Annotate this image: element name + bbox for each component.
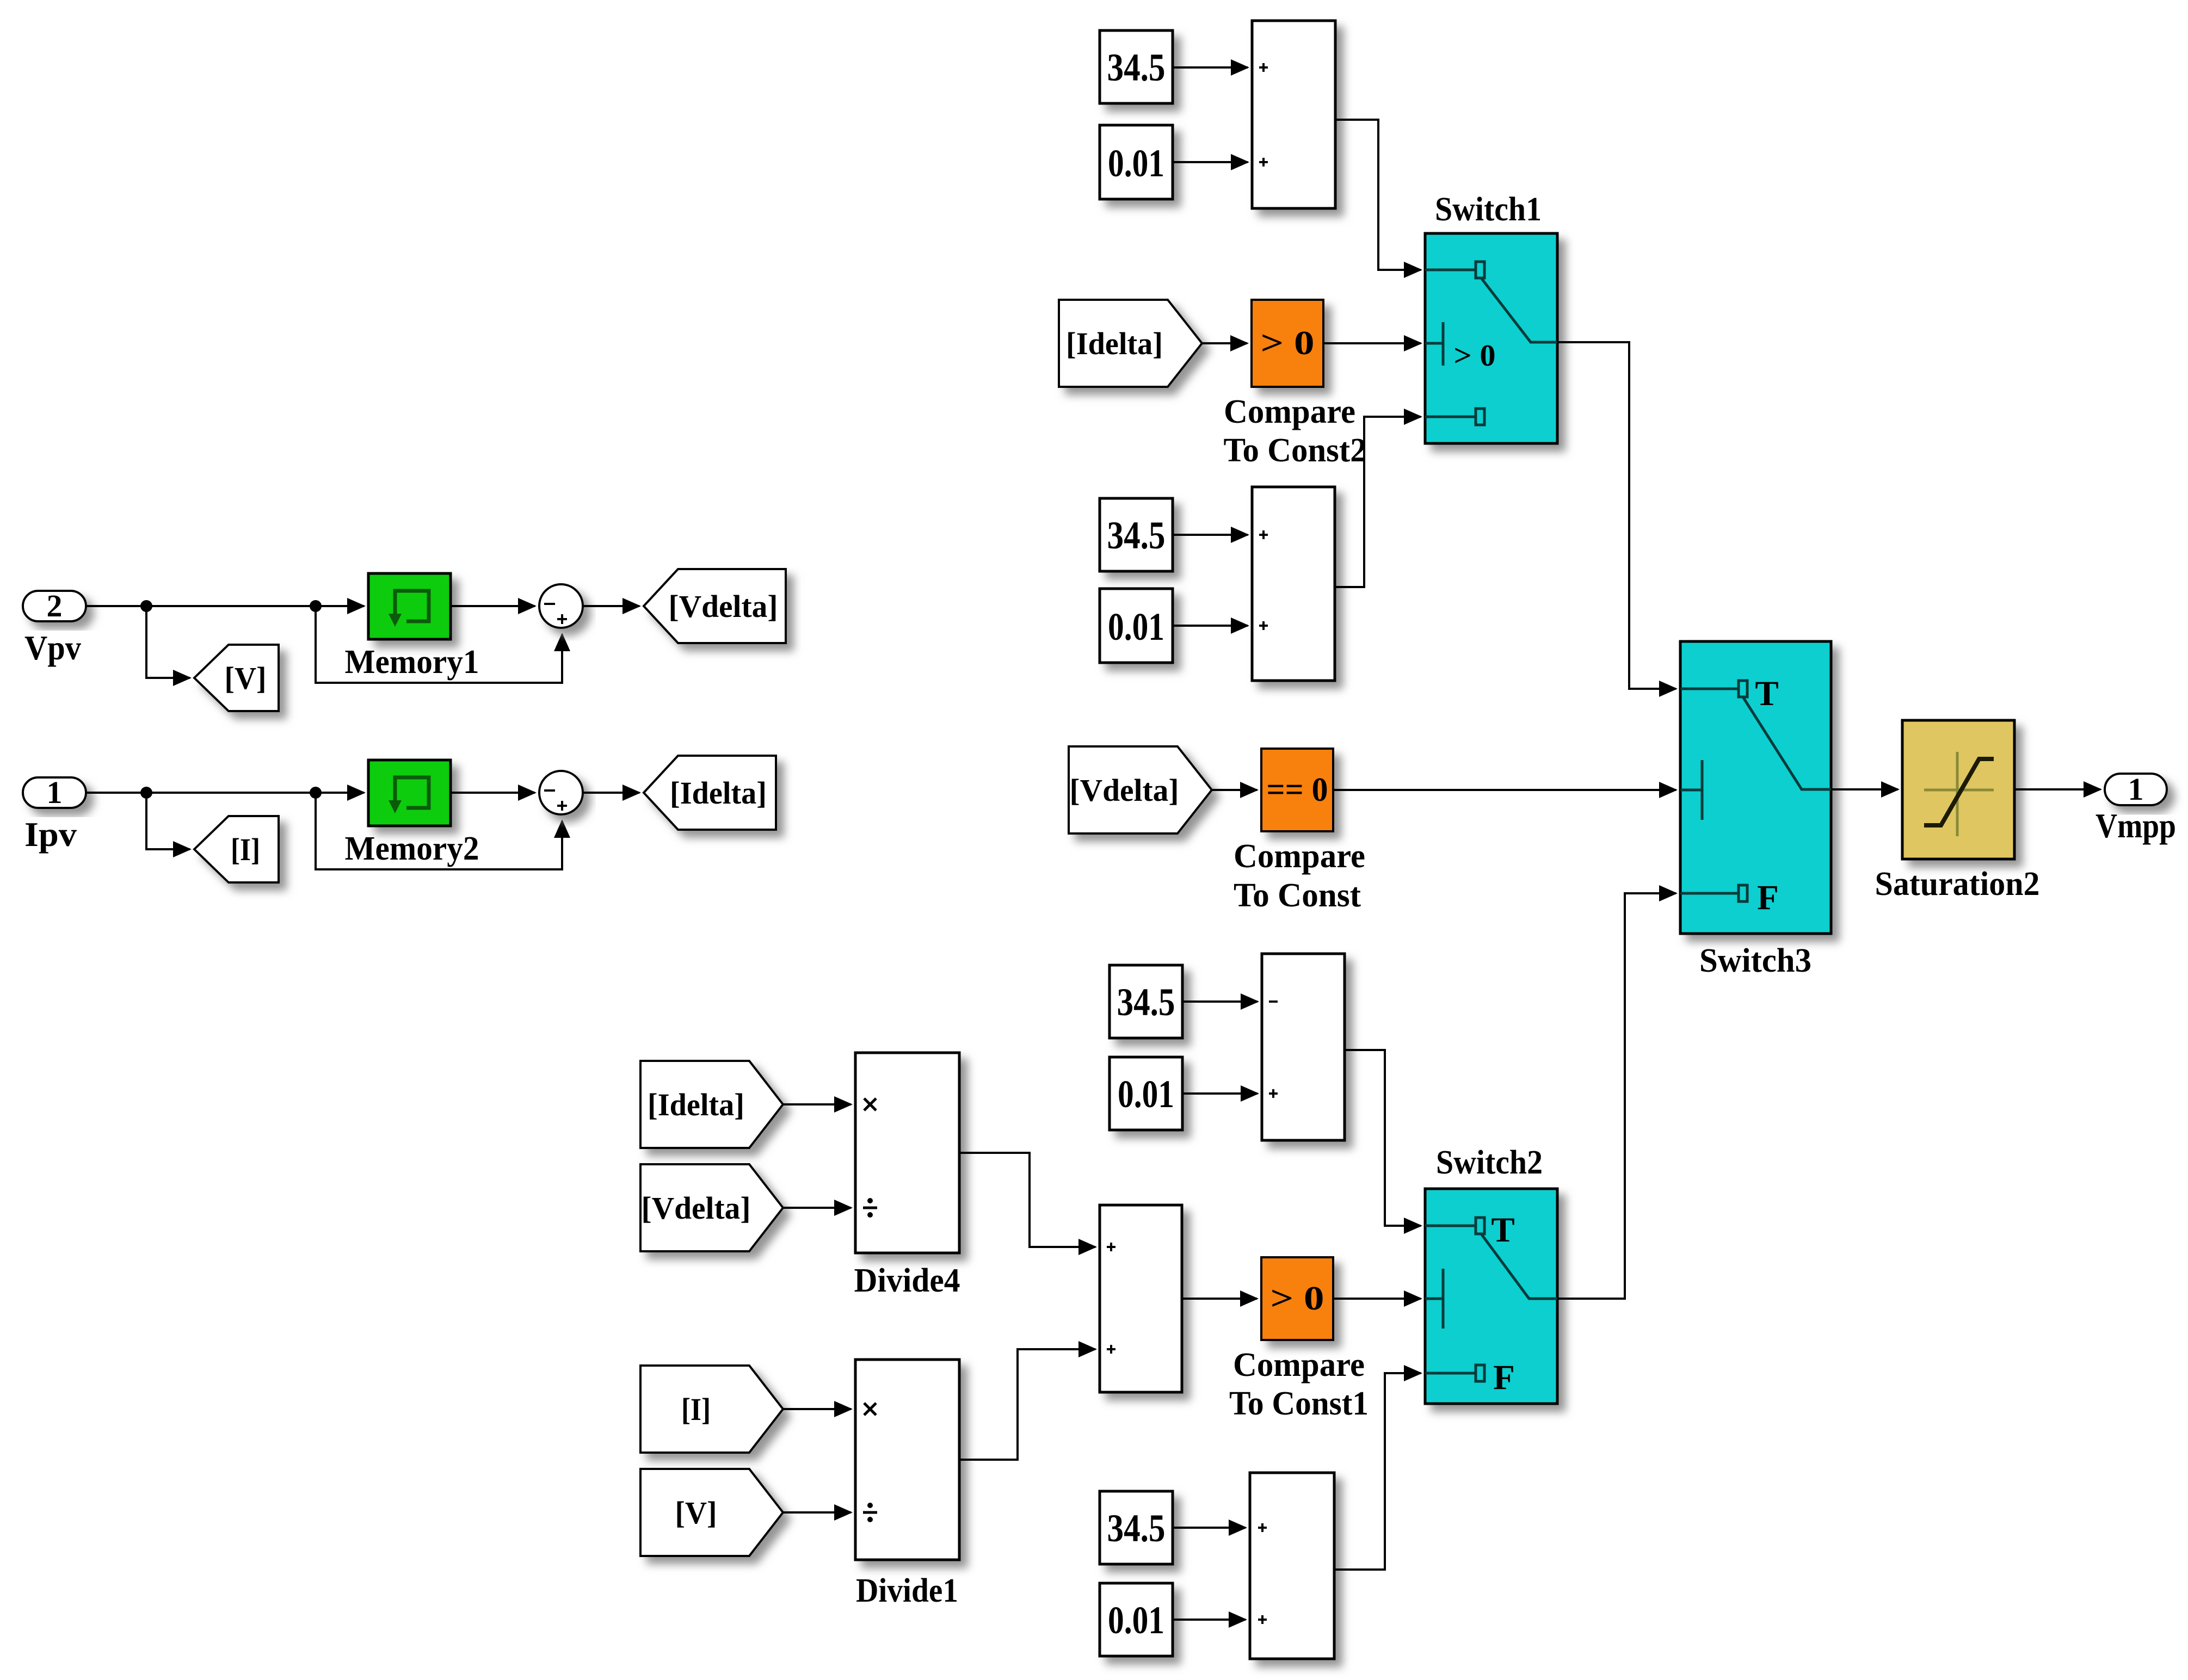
svg-text:> 0: > 0	[1454, 339, 1496, 373]
wire [I] to Divide1 input1	[783, 1408, 851, 1410]
wire Switch2 output to Switch3 input3	[1557, 893, 1676, 1299]
wire branch Ipv to goto [I]	[146, 793, 190, 849]
inport 1 (Ipv)	[23, 775, 86, 854]
svg-text:1: 1	[47, 775, 63, 810]
wire sum circle 2 to goto [Idelta]	[583, 792, 639, 794]
goto tag [Vdelta]	[644, 569, 786, 643]
wire Add3 to Compare To Const1	[1182, 1298, 1257, 1300]
from tag [I]	[640, 1366, 783, 1453]
wire 34.5 to Add4 top	[1173, 1527, 1246, 1529]
svg-text:Switch3: Switch3	[1699, 942, 1811, 979]
constant Constant8: 34.5	[1100, 1491, 1173, 1564]
compare block Compare To Const2 (> 0)	[1224, 300, 1367, 469]
constant Constant7: 0.01	[1110, 1057, 1182, 1130]
svg-text:Switch1: Switch1	[1435, 191, 1542, 228]
svg-text:Compare: Compare	[1233, 1347, 1365, 1383]
svg-text:34.5: 34.5	[1107, 46, 1166, 89]
svg-text:[I]: [I]	[231, 832, 260, 867]
svg-text:To Const: To Const	[1234, 877, 1361, 914]
constant Constant2: 34.5	[1100, 30, 1173, 103]
constant Constant6: 34.5	[1110, 965, 1182, 1038]
svg-text:[Vdelta]: [Vdelta]	[669, 589, 778, 624]
from tag [V]	[640, 1469, 783, 1556]
svg-text:Compare: Compare	[1224, 393, 1355, 430]
wire 0.01 to Add1 bottom	[1173, 625, 1248, 627]
from tag [Idelta] (top)	[1059, 300, 1202, 387]
junction dot A2	[310, 600, 322, 612]
svg-text:Vpv: Vpv	[24, 628, 81, 667]
svg-text:2: 2	[47, 588, 63, 623]
wire Add to Switch1 input1	[1335, 120, 1421, 270]
wire Add4 to Switch2 input3	[1334, 1373, 1421, 1570]
sum Add (top)	[1252, 21, 1335, 208]
wire Memory2 to sum circle 2	[451, 792, 535, 794]
svg-text:F: F	[1493, 1358, 1515, 1397]
svg-text:[Vdelta]: [Vdelta]	[1070, 773, 1179, 808]
svg-text:0.01: 0.01	[1118, 1072, 1174, 1116]
constant Constant5: 0.01	[1100, 589, 1173, 663]
wire 34.5 to Add1 top	[1173, 534, 1248, 536]
wire Add2 to Switch2 input1	[1345, 1050, 1421, 1226]
svg-text:Memory2: Memory2	[345, 830, 479, 867]
goto tag [I]	[194, 816, 279, 882]
goto tag [Idelta]	[644, 756, 776, 830]
sum Add2 (subtract)	[1262, 954, 1345, 1140]
wire feedback row1 to sum circle 1 bottom	[316, 606, 562, 683]
svg-text:F: F	[1757, 878, 1779, 917]
wire Compare To Const2 to Switch1 input2	[1323, 342, 1421, 344]
wire [V] to Divide1 input2	[783, 1511, 851, 1514]
svg-text:Compare: Compare	[1234, 838, 1365, 875]
junction dot B2	[310, 787, 322, 799]
svg-text:To Const1: To Const1	[1229, 1385, 1369, 1422]
svg-text:[V]: [V]	[675, 1495, 717, 1530]
saturation Saturation2	[1875, 720, 2040, 903]
svg-text:34.5: 34.5	[1107, 1506, 1166, 1550]
wire [Vdelta] to Divide4 input2	[783, 1207, 851, 1209]
svg-text:T: T	[1755, 674, 1778, 713]
svg-text:[I]: [I]	[681, 1392, 711, 1427]
junction dot B1	[140, 787, 152, 799]
svg-text:To Const2: To Const2	[1224, 432, 1367, 469]
svg-text:Vmpp: Vmpp	[2095, 806, 2176, 845]
svg-text:Ipv: Ipv	[24, 815, 77, 854]
divide Divide4	[854, 1053, 960, 1299]
svg-text:T: T	[1491, 1210, 1514, 1250]
wire [Vdelta] to Compare To Const	[1212, 789, 1257, 791]
wire Compare To Const to Switch3 input2	[1333, 789, 1676, 791]
divide Divide1	[855, 1360, 959, 1609]
wire Add1 to Switch1 input3	[1335, 417, 1421, 587]
wire Divide4 to Add3 input1	[959, 1153, 1095, 1247]
inport 2 (Vpv)	[23, 588, 86, 667]
switch Switch1	[1425, 191, 1557, 443]
svg-text:> 0: > 0	[1261, 325, 1315, 362]
svg-text:Memory1: Memory1	[345, 644, 479, 681]
constant Constant4: 34.5	[1100, 498, 1173, 571]
svg-text:[Idelta]: [Idelta]	[670, 775, 767, 811]
svg-text:[Vdelta]: [Vdelta]	[642, 1190, 751, 1226]
sum Add1 (second)	[1252, 487, 1335, 681]
svg-text:[V]: [V]	[225, 660, 267, 696]
svg-text:0.01: 0.01	[1108, 605, 1164, 648]
wire 0.01 to Add bottom	[1173, 161, 1248, 163]
junction dot A1	[140, 600, 152, 612]
svg-text:== 0: == 0	[1267, 771, 1328, 808]
svg-text:1: 1	[2128, 771, 2144, 807]
from tag [Vdelta] (bottom)	[640, 1164, 783, 1251]
wire Divide1 to Add3 input2	[959, 1349, 1095, 1460]
wire Compare To Const1 to Switch2 input2	[1333, 1298, 1421, 1300]
svg-text:34.5: 34.5	[1107, 514, 1166, 557]
from tag [Vdelta] (middle)	[1069, 746, 1212, 833]
svg-text:[Idelta]: [Idelta]	[1066, 326, 1163, 361]
svg-text:0.01: 0.01	[1108, 1598, 1164, 1642]
svg-text:Divide1: Divide1	[856, 1572, 958, 1609]
wire branch Vpv to goto [V]	[146, 606, 190, 678]
wire Ipv to Memory2	[86, 792, 364, 794]
compare block Compare To Const1 (> 0)	[1229, 1257, 1369, 1422]
sum circle 2 (Idelta subtract)	[539, 771, 583, 814]
switch Switch3	[1680, 641, 1831, 979]
svg-text:Saturation2: Saturation2	[1875, 866, 2040, 903]
wire 0.01 to Add2 bottom	[1182, 1092, 1258, 1095]
wire Saturation2 to outport Vmpp	[2014, 788, 2100, 790]
wire 0.01 to Add4 bottom	[1173, 1619, 1246, 1621]
compare block Compare To Const (== 0)	[1234, 749, 1365, 914]
wire sum circle 1 to goto [Vdelta]	[583, 605, 639, 607]
wire Switch3 to Saturation2	[1831, 788, 1898, 790]
memory Memory1	[345, 573, 479, 681]
from tag [Idelta] (bottom)	[640, 1061, 783, 1148]
sum circle 1 (Vdelta subtract)	[539, 584, 583, 628]
sum Add3 (conductance sum)	[1100, 1205, 1182, 1392]
goto tag [V]	[194, 645, 279, 711]
memory Memory2	[345, 760, 479, 867]
sum Add4 (bottom)	[1250, 1473, 1334, 1659]
wire [Idelta] to Compare To Const2	[1202, 342, 1247, 344]
wire Memory1 to sum circle 1	[451, 605, 535, 607]
wire feedback row2 to sum circle 2 bottom	[316, 793, 562, 869]
wire 34.5 to Add top	[1173, 66, 1248, 69]
wire [Idelta] to Divide4 input1	[783, 1103, 851, 1105]
svg-text:34.5: 34.5	[1117, 980, 1175, 1024]
svg-text:0.01: 0.01	[1108, 141, 1164, 185]
svg-text:Divide4: Divide4	[854, 1262, 960, 1299]
wire Vpv to Memory1	[86, 605, 364, 607]
switch Switch2	[1425, 1144, 1557, 1404]
outport 1 (Vmpp)	[2095, 771, 2176, 845]
svg-text:> 0: > 0	[1271, 1280, 1324, 1317]
wire Switch1 output to Switch3 input1	[1557, 342, 1676, 689]
constant Constant3: 0.01	[1100, 125, 1173, 199]
constant Constant9: 0.01	[1100, 1583, 1173, 1656]
wire 34.5 to Add2 top	[1182, 1000, 1258, 1003]
svg-text:[Idelta]: [Idelta]	[648, 1087, 744, 1122]
svg-text:Switch2: Switch2	[1436, 1144, 1543, 1181]
